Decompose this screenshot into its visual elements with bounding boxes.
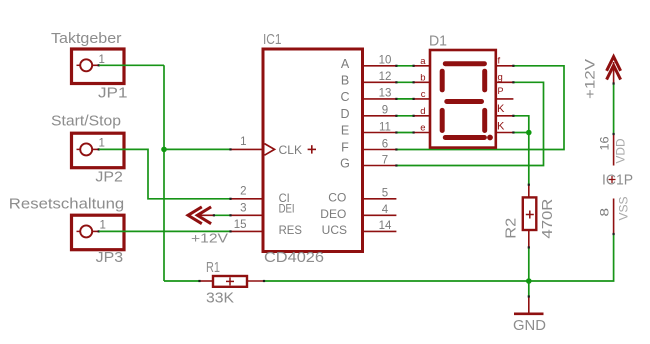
connector JP3	[72, 215, 125, 250]
segment d	[445, 135, 484, 140]
IC1 pin 9 D stub	[363, 115, 397, 117]
wire-pin connection dots	[198, 65, 614, 298]
svg-text:DEO: DEO	[320, 207, 346, 221]
clk plus sign	[308, 145, 316, 153]
svg-text:JP3: JP3	[96, 250, 124, 266]
connector JP1	[72, 49, 125, 84]
D1 pin P stub	[496, 98, 514, 100]
IC1 pin 4 DEO stub	[363, 214, 397, 216]
IC1 pin 7 G stub	[363, 165, 397, 167]
svg-text:Taktgeber: Taktgeber	[51, 31, 122, 47]
svg-text:470R: 470R	[540, 199, 556, 239]
svg-text:b: b	[420, 73, 425, 84]
wire JP1 horizontal	[99, 64, 164, 66]
IC1 box	[263, 49, 363, 252]
IC1 pin 6 F stub	[363, 149, 397, 151]
svg-text:R2: R2	[504, 218, 520, 239]
svg-text:1: 1	[99, 137, 105, 149]
svg-text:C: C	[340, 90, 349, 104]
wire +12V to DEI	[214, 214, 231, 216]
IC1 pin 10 A stub	[363, 65, 397, 67]
junction CLK net	[161, 147, 167, 153]
svg-text:D1: D1	[429, 34, 447, 50]
svg-text:f: f	[498, 56, 501, 67]
svg-text:A: A	[341, 57, 350, 71]
wire CLK net vertical	[163, 65, 165, 281]
svg-text:Start/Stop: Start/Stop	[51, 113, 121, 129]
svg-text:CD4026: CD4026	[264, 250, 324, 266]
segment f	[440, 71, 445, 90]
IC1 pin 12 B stub	[363, 81, 397, 83]
wire JP2 to CI pin	[99, 149, 231, 198]
D1 pin b stub	[414, 81, 430, 83]
svg-text:+12V: +12V	[191, 231, 228, 246]
decimal point	[487, 135, 493, 141]
D1 pin e stub	[414, 132, 430, 134]
wire +12V to VDD pin	[613, 84, 615, 135]
svg-text:K: K	[497, 120, 505, 132]
segment c	[482, 110, 487, 130]
svg-text:IC1P: IC1P	[602, 173, 633, 189]
connector JP2	[72, 133, 125, 168]
segment b	[482, 71, 487, 90]
IC1 pin 1 CLK stub	[231, 144, 275, 156]
svg-text:K: K	[497, 103, 505, 115]
svg-text:GND: GND	[513, 318, 546, 334]
svg-text:5: 5	[382, 188, 388, 200]
svg-text:IC1: IC1	[263, 32, 282, 48]
svg-text:D: D	[340, 107, 349, 121]
D1 pin d stub	[414, 115, 430, 117]
svg-text:1: 1	[99, 54, 105, 66]
resistor R1	[200, 276, 265, 287]
wire C net	[396, 98, 413, 100]
svg-text:33K: 33K	[206, 291, 234, 307]
+12V supply arrow (top right)	[607, 57, 621, 84]
svg-text:14: 14	[379, 220, 392, 232]
svg-text:15: 15	[234, 219, 247, 231]
D1 pin f stub	[496, 65, 514, 67]
svg-text:P: P	[498, 86, 504, 96]
svg-text:JP2: JP2	[95, 170, 123, 186]
svg-text:UCS: UCS	[322, 223, 347, 237]
D1 pin K1 stub	[496, 115, 514, 117]
IC1 pin 3 DEI stub	[231, 214, 264, 216]
IC1 pin 11 E stub	[363, 132, 397, 134]
svg-text:VSS: VSS	[617, 197, 631, 221]
svg-text:16: 16	[600, 137, 612, 151]
svg-text:B: B	[341, 73, 349, 87]
wire junction to R1	[164, 280, 200, 282]
IC1P origin cross	[609, 176, 616, 183]
svg-text:DEI: DEI	[279, 201, 295, 215]
wire E net	[396, 132, 413, 134]
wire A net	[396, 65, 413, 67]
svg-text:12: 12	[379, 71, 392, 83]
junction K net	[526, 130, 532, 136]
svg-text:JP1: JP1	[98, 86, 128, 102]
wire GND junction to VSS corner	[529, 234, 614, 281]
svg-text:4: 4	[382, 204, 389, 216]
wire JP3 to RES pin	[99, 230, 231, 232]
svg-text:8: 8	[600, 208, 612, 217]
svg-text:CLK: CLK	[279, 143, 303, 157]
IC1 pin 15 RES stub	[231, 230, 264, 232]
IC1P power gate	[613, 134, 615, 234]
svg-text:6: 6	[382, 138, 388, 150]
segment g	[447, 99, 482, 104]
IC1 pin 14 UCS stub	[363, 230, 397, 232]
wire K1 to K2	[513, 116, 528, 133]
wire K2 to junction	[513, 132, 528, 134]
svg-text:R1: R1	[206, 260, 220, 276]
svg-text:1: 1	[240, 136, 246, 148]
IC1 pin 13 C stub	[363, 98, 397, 100]
svg-text:13: 13	[379, 88, 392, 100]
svg-text:F: F	[341, 141, 349, 155]
svg-text:VDD: VDD	[614, 138, 628, 163]
wire D net	[396, 115, 413, 117]
segment e	[440, 110, 445, 130]
svg-text:3: 3	[240, 203, 246, 215]
junction GND net	[526, 278, 532, 284]
svg-text:2: 2	[240, 185, 246, 197]
svg-text:9: 9	[382, 105, 388, 117]
IC1 pin 5 CO stub	[363, 198, 397, 200]
svg-text:G: G	[340, 157, 350, 171]
wire K junction to R2	[528, 133, 530, 185]
wire B net	[396, 81, 413, 83]
svg-text:g: g	[498, 72, 503, 83]
svg-text:11: 11	[379, 121, 391, 133]
svg-text:CO: CO	[328, 191, 346, 205]
wire junction to GND symbol	[528, 281, 530, 297]
ground symbol GND	[514, 297, 544, 314]
D1 pin a stub	[414, 65, 430, 67]
segment a	[445, 61, 484, 66]
+12V supply arrow at DEI	[188, 207, 214, 224]
svg-text:10: 10	[379, 55, 392, 67]
wire junction to CLK pin	[164, 148, 231, 150]
wire F net to f	[396, 66, 564, 150]
wire G net to g	[396, 82, 543, 165]
resistor R2	[523, 185, 537, 248]
D1 pin g stub	[496, 81, 514, 83]
svg-text:E: E	[341, 124, 349, 138]
svg-text:1: 1	[100, 220, 106, 232]
svg-text:Resetschaltung: Resetschaltung	[9, 197, 124, 213]
svg-text:RES: RES	[279, 223, 302, 237]
wire R2 to GND junction	[528, 247, 530, 281]
svg-text:+12V: +12V	[582, 58, 598, 99]
svg-text:a: a	[420, 56, 426, 67]
IC1 pin 2 CI stub	[231, 198, 264, 200]
display D1 box	[430, 50, 496, 148]
D1 pin K2 stub	[496, 132, 514, 134]
D1 pin c stub	[414, 98, 430, 100]
wire R1 to GND junction	[264, 280, 529, 282]
svg-text:e: e	[420, 123, 425, 134]
svg-text:c: c	[421, 89, 426, 100]
svg-text:d: d	[420, 106, 425, 117]
svg-text:7: 7	[382, 154, 388, 166]
